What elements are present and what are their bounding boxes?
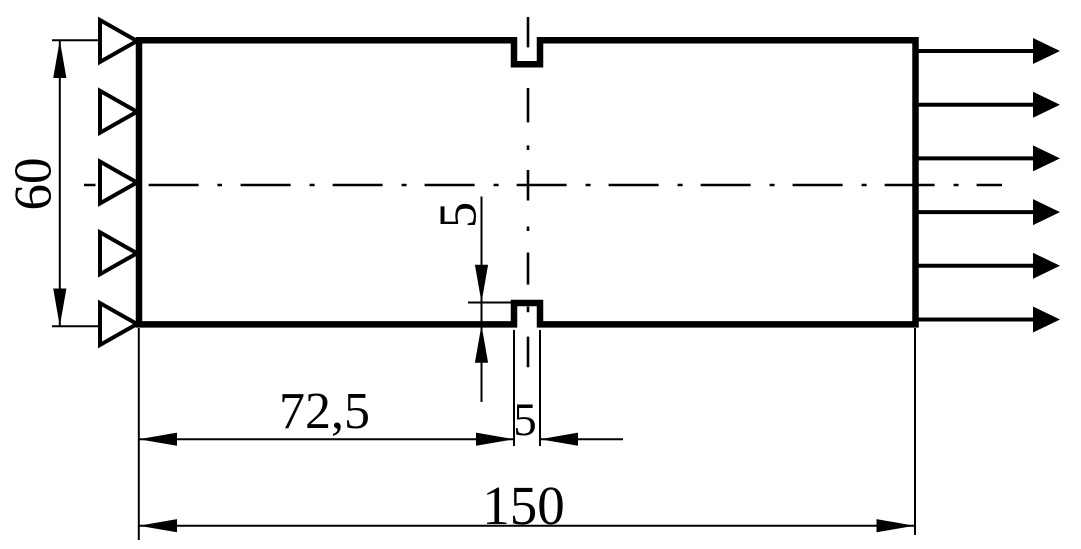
svg-text:150: 150 (482, 475, 565, 536)
svg-text:5: 5 (430, 202, 488, 229)
dimension 72,5 line (139, 438, 514, 440)
notch width arrow left (shared with 72,5) (476, 433, 514, 446)
support triangle 5 (100, 303, 137, 345)
svg-text:72,5: 72,5 (279, 383, 370, 440)
load arrow 1 (916, 38, 1060, 64)
support triangle 3 (100, 162, 137, 204)
support triangle 1 (100, 20, 137, 62)
dimension 60 line (59, 40, 61, 326)
dimension 60 arrow down (53, 289, 66, 327)
notch depth extension line (468, 302, 512, 304)
dimension 150 line (139, 525, 915, 527)
load arrow 5 (916, 253, 1060, 279)
dimension 60 extension line top (52, 39, 136, 41)
load arrow 6 (916, 307, 1060, 333)
load arrow 3 (916, 145, 1060, 171)
notch width tail line (540, 438, 623, 440)
notch width arrow right (540, 433, 578, 446)
load arrow 4 (916, 199, 1060, 225)
dimension 150 extension line right (914, 328, 916, 535)
dimension 60 arrow up (53, 40, 66, 78)
plate outline with top and bottom notches (139, 40, 916, 324)
dimension 150 arrow left (139, 519, 177, 532)
support triangle 4 (100, 232, 137, 274)
dimension 72,5 extension line left (138, 328, 140, 540)
notch depth arrow up (475, 325, 488, 363)
svg-text:60: 60 (5, 158, 63, 211)
dimension 60 extension line bottom (52, 325, 136, 327)
notch width extension line right (539, 330, 541, 446)
svg-text:5: 5 (513, 394, 537, 446)
dimension 150 arrow right (877, 519, 915, 532)
notch depth dimension line (481, 197, 483, 403)
load arrow 2 (916, 92, 1060, 118)
notch depth arrow down (475, 265, 488, 303)
dimension 72,5 arrow left (139, 433, 177, 446)
support triangle 2 (100, 91, 137, 133)
horizontal centerline (84, 184, 1002, 187)
vertical centerline (527, 17, 530, 367)
notch width extension line left (513, 330, 515, 446)
